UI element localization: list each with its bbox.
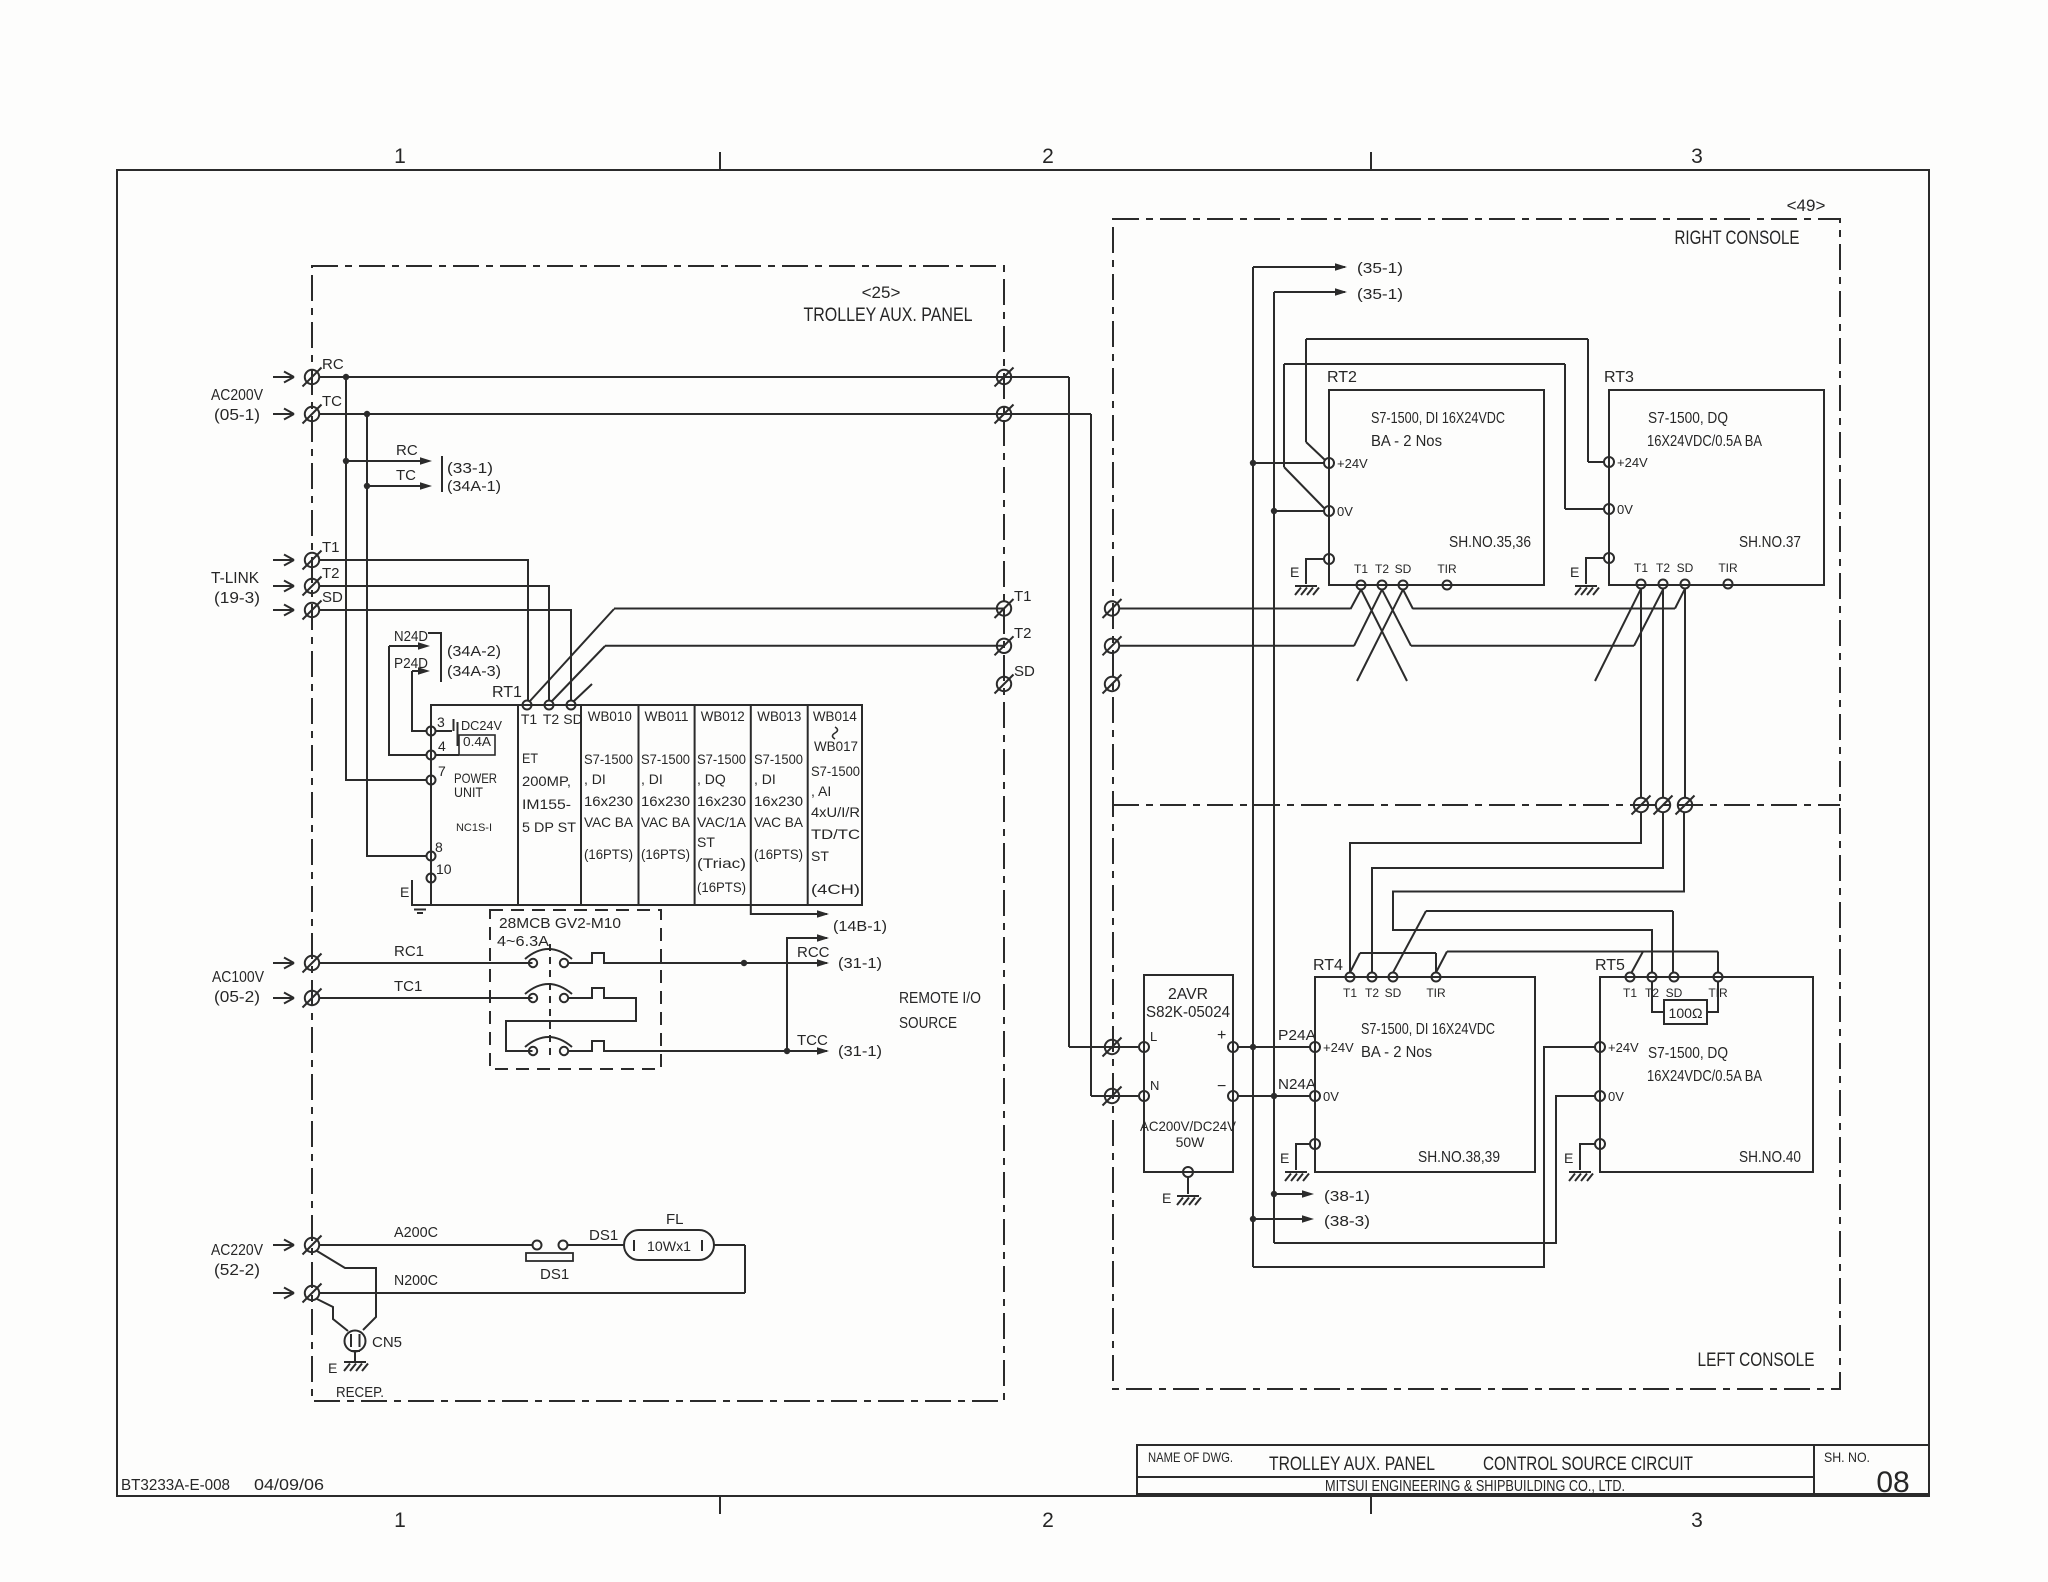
svg-text:(16PTS): (16PTS) — [697, 879, 746, 895]
svg-text:(19-3): (19-3) — [214, 590, 260, 607]
svg-text:AC220V: AC220V — [211, 1242, 263, 1259]
svg-text:16X24VDC/0.5A BA: 16X24VDC/0.5A BA — [1647, 433, 1762, 450]
svg-text:, DI: , DI — [754, 771, 776, 787]
svg-text:E: E — [328, 1360, 337, 1376]
svg-text:, AI: , AI — [811, 783, 831, 799]
svg-text:FL: FL — [666, 1211, 684, 1228]
svg-text:0V: 0V — [1617, 502, 1633, 517]
svg-text:TIR: TIR — [1426, 986, 1446, 1000]
svg-text:1: 1 — [394, 1509, 406, 1532]
svg-text:TIR: TIR — [1437, 562, 1457, 576]
svg-text:, DI: , DI — [584, 771, 606, 787]
svg-text:IM155-: IM155- — [522, 796, 571, 812]
svg-text:(31-1): (31-1) — [838, 1043, 882, 1060]
svg-text:100Ω: 100Ω — [1669, 1005, 1703, 1021]
svg-text:T-LINK: T-LINK — [211, 570, 259, 587]
svg-text:(05-1): (05-1) — [214, 407, 260, 424]
svg-text:16x230: 16x230 — [697, 793, 746, 809]
svg-text:SD: SD — [1677, 561, 1694, 575]
svg-text:E: E — [1564, 1150, 1573, 1166]
svg-text:TIR: TIR — [1718, 561, 1738, 575]
svg-text:N200C: N200C — [394, 1272, 438, 1289]
svg-text:DC24V: DC24V — [461, 718, 502, 733]
svg-text:NAME OF DWG.: NAME OF DWG. — [1148, 1449, 1233, 1465]
svg-text:A200C: A200C — [394, 1224, 438, 1241]
svg-text:TC: TC — [396, 467, 416, 484]
svg-text:N24D: N24D — [394, 628, 428, 645]
svg-text:AC100V: AC100V — [212, 969, 264, 986]
svg-text:, DI: , DI — [641, 771, 663, 787]
svg-text:S7-1500: S7-1500 — [811, 763, 860, 779]
svg-text:BA - 2 Nos: BA - 2 Nos — [1361, 1044, 1432, 1061]
svg-text:+24V: +24V — [1323, 1040, 1354, 1055]
svg-text:3: 3 — [1691, 1509, 1703, 1532]
svg-text:3: 3 — [1691, 145, 1703, 168]
svg-text:N: N — [1150, 1078, 1159, 1093]
svg-text:L: L — [1150, 1029, 1157, 1044]
svg-text:10: 10 — [436, 861, 452, 877]
svg-text:MITSUI ENGINEERING & SHIPBUILD: MITSUI ENGINEERING & SHIPBUILDING CO., L… — [1325, 1478, 1625, 1495]
svg-text:TC: TC — [322, 393, 342, 410]
svg-text:SD: SD — [1385, 986, 1402, 1000]
svg-text:T1: T1 — [1634, 561, 1648, 575]
svg-text:+24V: +24V — [1608, 1040, 1639, 1055]
svg-text:T1: T1 — [1623, 986, 1637, 1000]
svg-text:, DQ: , DQ — [697, 771, 726, 787]
svg-text:ST: ST — [697, 834, 715, 850]
svg-text:TC1: TC1 — [394, 978, 422, 995]
svg-text:LEFT CONSOLE: LEFT CONSOLE — [1698, 1350, 1815, 1371]
svg-text:10Wx1: 10Wx1 — [647, 1238, 691, 1254]
svg-text:TD/TC: TD/TC — [811, 826, 860, 842]
svg-text:(16PTS): (16PTS) — [754, 846, 803, 862]
svg-text:RCC: RCC — [797, 944, 830, 961]
svg-text:16X24VDC/0.5A BA: 16X24VDC/0.5A BA — [1647, 1068, 1762, 1085]
svg-text:DS1: DS1 — [540, 1266, 569, 1283]
svg-text:3: 3 — [437, 714, 445, 730]
svg-text:S7-1500, DI 16X24VDC: S7-1500, DI 16X24VDC — [1371, 410, 1505, 427]
svg-text:4~6.3A: 4~6.3A — [497, 933, 549, 950]
svg-text:UNIT: UNIT — [454, 784, 483, 800]
svg-text:S7-1500: S7-1500 — [584, 751, 633, 767]
svg-text:AC200V: AC200V — [211, 387, 263, 404]
svg-text:200MP,: 200MP, — [522, 773, 571, 789]
svg-text:WB010: WB010 — [588, 708, 632, 724]
svg-text:T2: T2 — [1375, 562, 1389, 576]
svg-text:<25>: <25> — [862, 283, 901, 302]
svg-text:AC200V/DC24V: AC200V/DC24V — [1140, 1118, 1237, 1134]
svg-text:S7-1500: S7-1500 — [697, 751, 746, 767]
svg-text:ST: ST — [811, 848, 829, 864]
svg-text:TROLLEY AUX. PANEL: TROLLEY AUX. PANEL — [1269, 1454, 1435, 1475]
svg-text:−: − — [1217, 1078, 1226, 1095]
svg-text:T2: T2 — [543, 711, 560, 727]
svg-text:(38-1): (38-1) — [1324, 1188, 1370, 1205]
svg-text:5 DP ST: 5 DP ST — [522, 819, 576, 835]
svg-text:2: 2 — [1042, 1509, 1054, 1532]
svg-text:S7-1500: S7-1500 — [641, 751, 690, 767]
svg-text:(31-1): (31-1) — [838, 955, 882, 972]
svg-text:(33-1): (33-1) — [447, 460, 493, 477]
svg-text:S7-1500, DQ: S7-1500, DQ — [1648, 410, 1728, 427]
svg-text:E: E — [400, 884, 409, 900]
svg-text:T2: T2 — [1014, 625, 1032, 642]
svg-text:E: E — [1162, 1190, 1171, 1206]
svg-text:(35-1): (35-1) — [1357, 286, 1403, 303]
svg-text:+24V: +24V — [1337, 456, 1368, 471]
svg-text:ET: ET — [522, 750, 538, 766]
svg-text:TROLLEY AUX. PANEL: TROLLEY AUX. PANEL — [804, 305, 973, 326]
svg-text:SD: SD — [1395, 562, 1412, 576]
svg-text:SH. NO.: SH. NO. — [1824, 1449, 1870, 1465]
svg-text:<49>: <49> — [1787, 196, 1826, 215]
svg-text:0V: 0V — [1337, 504, 1353, 519]
svg-text:RC1: RC1 — [394, 943, 424, 960]
svg-text:(16PTS): (16PTS) — [584, 846, 633, 862]
svg-text:E: E — [1290, 564, 1299, 580]
svg-text:08: 08 — [1876, 1466, 1909, 1499]
svg-text:T2: T2 — [1656, 561, 1670, 575]
svg-text:SH.NO.40: SH.NO.40 — [1739, 1149, 1801, 1166]
svg-text:16x230: 16x230 — [584, 793, 633, 809]
svg-text:BA - 2 Nos: BA - 2 Nos — [1371, 433, 1442, 450]
svg-text:BT3233A-E-008: BT3233A-E-008 — [121, 1477, 230, 1494]
svg-text:0V: 0V — [1608, 1089, 1624, 1104]
svg-text:VAC BA: VAC BA — [584, 814, 634, 830]
svg-text:S7-1500, DI 16X24VDC: S7-1500, DI 16X24VDC — [1361, 1021, 1495, 1038]
svg-text:7: 7 — [438, 763, 446, 779]
svg-text:SD: SD — [1014, 663, 1035, 680]
svg-text:TCC: TCC — [797, 1032, 828, 1049]
svg-text:+24V: +24V — [1617, 455, 1648, 470]
svg-text:DS1: DS1 — [589, 1227, 618, 1244]
svg-text:28MCB GV2-M10: 28MCB GV2-M10 — [499, 915, 621, 932]
svg-text:1: 1 — [394, 145, 406, 168]
svg-text:50W: 50W — [1176, 1134, 1206, 1150]
svg-text:RIGHT CONSOLE: RIGHT CONSOLE — [1675, 228, 1800, 249]
svg-text:(52-2): (52-2) — [214, 1262, 260, 1279]
svg-text:SH.NO.37: SH.NO.37 — [1739, 534, 1801, 551]
svg-text:04/09/06: 04/09/06 — [254, 1477, 324, 1494]
svg-text:0V: 0V — [1323, 1089, 1339, 1104]
svg-text:RECEP.: RECEP. — [336, 1384, 384, 1401]
svg-text:NC1S-I: NC1S-I — [456, 822, 492, 834]
svg-text:(16PTS): (16PTS) — [641, 846, 690, 862]
svg-text:VAC BA: VAC BA — [754, 814, 804, 830]
svg-text:SD: SD — [1666, 986, 1683, 1000]
svg-text:N24A: N24A — [1278, 1076, 1316, 1093]
svg-text:S82K-05024: S82K-05024 — [1146, 1004, 1230, 1021]
svg-text:RC: RC — [396, 442, 418, 459]
svg-text:SOURCE: SOURCE — [899, 1015, 957, 1032]
svg-text:+: + — [1217, 1027, 1226, 1044]
svg-text:CONTROL SOURCE CIRCUIT: CONTROL SOURCE CIRCUIT — [1483, 1454, 1693, 1475]
svg-text:S7-1500: S7-1500 — [754, 751, 803, 767]
svg-text:RT5: RT5 — [1595, 957, 1625, 974]
svg-text:16x230: 16x230 — [641, 793, 690, 809]
svg-text:2: 2 — [1042, 145, 1054, 168]
svg-text:E: E — [1570, 564, 1579, 580]
svg-text:(14B-1): (14B-1) — [833, 918, 887, 935]
svg-text:RT1: RT1 — [492, 684, 522, 701]
svg-text:2AVR: 2AVR — [1168, 986, 1208, 1003]
svg-text:(34A-1): (34A-1) — [447, 478, 501, 495]
svg-text:T1: T1 — [521, 711, 538, 727]
svg-text:4xU/I/R: 4xU/I/R — [811, 804, 860, 820]
svg-text:VAC BA: VAC BA — [641, 814, 691, 830]
svg-text:WB012: WB012 — [701, 708, 745, 724]
svg-text:WB013: WB013 — [757, 708, 801, 724]
svg-text:T2: T2 — [1365, 986, 1379, 1000]
svg-text:RT2: RT2 — [1327, 369, 1357, 386]
svg-text:VAC/1A: VAC/1A — [697, 814, 747, 830]
svg-text:REMOTE I/O: REMOTE I/O — [899, 990, 981, 1007]
svg-text:WB011: WB011 — [645, 708, 689, 724]
svg-text:(38-3): (38-3) — [1324, 1213, 1370, 1230]
svg-text:RT4: RT4 — [1313, 957, 1343, 974]
svg-text:SH.NO.35,36: SH.NO.35,36 — [1449, 534, 1531, 551]
svg-text:P24A: P24A — [1278, 1027, 1316, 1044]
svg-text:(34A-2): (34A-2) — [447, 643, 501, 660]
svg-text:T1: T1 — [1354, 562, 1368, 576]
svg-text:CN5: CN5 — [372, 1334, 402, 1351]
svg-text:(05-2): (05-2) — [214, 989, 260, 1006]
svg-text:T1: T1 — [322, 539, 340, 556]
svg-text:(Triac): (Triac) — [697, 855, 746, 871]
svg-text:T1: T1 — [1014, 588, 1032, 605]
svg-text:8: 8 — [435, 839, 443, 855]
svg-text:WB017: WB017 — [814, 738, 858, 754]
svg-text:0.4A: 0.4A — [463, 734, 491, 749]
svg-text:SD: SD — [322, 589, 343, 606]
svg-text:SD: SD — [563, 711, 582, 727]
svg-text:WB014: WB014 — [813, 708, 857, 724]
svg-text:RT3: RT3 — [1604, 369, 1634, 386]
svg-text:SH.NO.38,39: SH.NO.38,39 — [1418, 1149, 1500, 1166]
svg-text:E: E — [1280, 1150, 1289, 1166]
svg-text:T1: T1 — [1343, 986, 1357, 1000]
svg-text:(35-1): (35-1) — [1357, 260, 1403, 277]
svg-text:4: 4 — [438, 738, 446, 754]
svg-text:16x230: 16x230 — [754, 793, 803, 809]
svg-text:(4CH): (4CH) — [811, 881, 860, 897]
svg-text:(34A-3): (34A-3) — [447, 663, 501, 680]
svg-text:T2: T2 — [322, 565, 340, 582]
svg-text:RC: RC — [322, 356, 344, 373]
svg-text:S7-1500, DQ: S7-1500, DQ — [1648, 1045, 1728, 1062]
